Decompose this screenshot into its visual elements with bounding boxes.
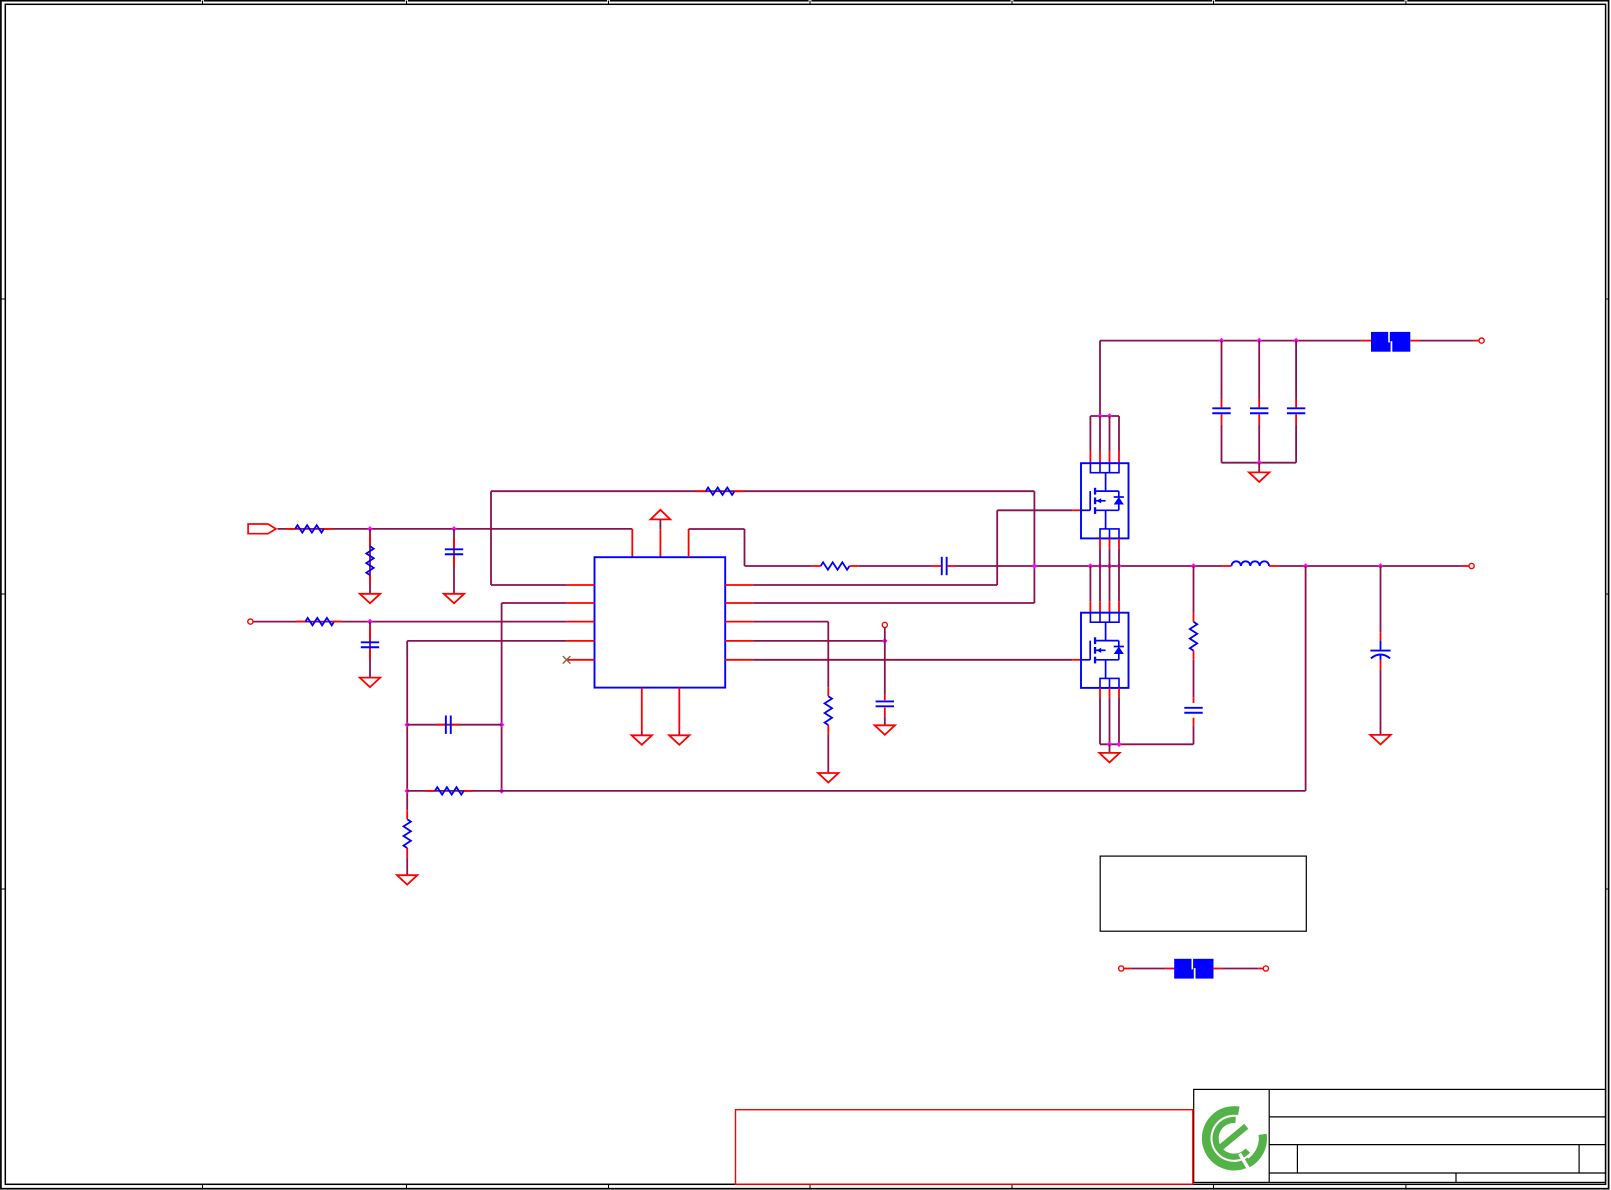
node SW junction 1 — [1032, 563, 1038, 569]
wire Q2 drain — [1099, 566, 1101, 601]
fuse F2 — [1174, 959, 1213, 979]
node A junction — [367, 526, 373, 532]
no-connect X — [563, 656, 571, 664]
wire bottom feedback line — [407, 790, 1305, 792]
ground — [818, 773, 838, 783]
wire U1 right2 to vertical — [753, 602, 1034, 604]
wire snubber branch — [1193, 566, 1195, 613]
pin U1 BST top3 — [688, 529, 690, 557]
node VOUT junction cap — [1378, 563, 1384, 569]
wire VIN to J5 — [1410, 340, 1419, 342]
capacitor C1 — [445, 548, 463, 550]
wire Q1 drain — [1109, 416, 1111, 451]
ground — [397, 875, 417, 885]
capacitor C10 polarized — [1370, 650, 1390, 652]
wire comp cap horizontal — [407, 724, 501, 726]
wire C2 branch — [369, 622, 371, 678]
node drain bus j2 — [1107, 413, 1113, 419]
capacitor C5 snubber — [1184, 707, 1202, 709]
wire Q2 drain — [1118, 566, 1120, 601]
capacitor C3 boot — [941, 557, 943, 575]
wire Q2 drain — [1109, 566, 1111, 601]
wire Q1 drain — [1099, 416, 1101, 451]
wire Q2 drain — [1089, 566, 1091, 601]
pin U1 right5 — [725, 659, 753, 661]
wire EN net — [253, 621, 566, 623]
wire cap bank bus — [1222, 462, 1297, 464]
wire R2 branch — [369, 529, 371, 594]
wire SS pin4 horizontal — [407, 640, 566, 642]
resistor R5 boot — [821, 562, 850, 569]
wire Q1 drain — [1118, 416, 1120, 451]
node G junction — [499, 788, 505, 794]
wire C7 branch — [1221, 341, 1223, 399]
wire FB tap vertical — [1305, 566, 1307, 791]
wire Q1 source — [1118, 538, 1120, 548]
resistor R6 — [825, 696, 832, 725]
node VOUT junction fb — [1303, 563, 1309, 569]
wire SW line left — [745, 565, 812, 567]
node drain bus j1 — [1097, 413, 1103, 419]
wire VOUT line — [1278, 565, 1462, 567]
wire gate1 to Q1 — [997, 509, 1072, 511]
wire drain bus Q1 — [1090, 415, 1119, 417]
node SW junction q2 — [1097, 563, 1103, 569]
node SW junction q4 — [1116, 563, 1122, 569]
resistor R2 — [366, 546, 373, 575]
resistor R3 — [305, 618, 334, 625]
capacitor C2 — [361, 641, 379, 643]
wire C10 branch — [1380, 566, 1382, 632]
wire F2 left — [1131, 968, 1165, 970]
node source bus j2 — [1116, 742, 1122, 748]
pin U1 PGND bottom2 — [678, 688, 680, 731]
ground — [360, 678, 380, 688]
capacitor C8 — [1250, 407, 1268, 409]
wire C9 branch — [1295, 341, 1297, 399]
terminal J7 — [1263, 966, 1268, 971]
wire Q2 source — [1109, 688, 1111, 698]
wire VIN vertical — [1099, 341, 1101, 416]
node VIN j1 — [1219, 338, 1225, 344]
wire SW mid2 — [957, 565, 1223, 567]
capacitor C9 — [1287, 407, 1305, 409]
wire gnd stub q — [1109, 744, 1111, 753]
node SW junction q1 — [1088, 563, 1094, 569]
pin U1 SS left4 — [566, 640, 594, 642]
wire FB top horizontal — [491, 490, 1034, 492]
resistor R9 — [404, 819, 411, 848]
wire Q1 drain — [1089, 416, 1091, 451]
pin U1 IN top — [631, 529, 633, 557]
pin U1 COMP left2 — [566, 602, 594, 604]
inductor L1 — [1232, 561, 1270, 566]
node SW junction snub — [1191, 563, 1197, 569]
node bus junction — [1256, 460, 1262, 466]
capacitor C7 — [1212, 407, 1230, 409]
pin U1 GND bottom1 — [641, 688, 643, 731]
wire gnd stub — [1258, 463, 1260, 473]
wire C1 branch — [453, 529, 455, 594]
resistor R8 comp — [435, 787, 464, 794]
terminal J4 VOUT — [1469, 563, 1474, 568]
wire C8 branch — [1258, 341, 1260, 399]
wire C4 branch — [884, 628, 886, 641]
ground — [360, 594, 380, 604]
wire source bus — [1100, 743, 1194, 745]
transistor Q2 — [1081, 613, 1129, 688]
pin U1 EN left3 — [566, 621, 594, 623]
wire BST vertical — [744, 529, 746, 566]
node source bus j1 — [1107, 742, 1113, 748]
node D junction — [404, 722, 410, 728]
wire VIN rail — [1100, 340, 1362, 342]
ground — [669, 735, 689, 745]
resistor R1 — [295, 525, 324, 532]
ground — [875, 725, 895, 735]
wire pin4 to C4 — [753, 640, 884, 642]
terminal J2 EN — [248, 619, 253, 624]
node SW junction q3 — [1107, 563, 1113, 569]
wire FB right vertical — [1033, 491, 1035, 603]
pin U1 FB left1 — [566, 584, 594, 586]
node E junction — [499, 722, 505, 728]
wire Q1 source — [1109, 538, 1111, 548]
fuse F1 — [1371, 332, 1410, 352]
resistor R4 feedback — [706, 488, 735, 495]
wire F2 right — [1222, 968, 1259, 970]
wire pin3 to R6 — [753, 621, 828, 623]
pin U1 right1 — [725, 584, 753, 586]
terminal J6 — [1119, 966, 1124, 971]
pin U1 right3 — [725, 621, 753, 623]
wire SW mid1 — [859, 565, 932, 567]
wire R6 branch — [827, 622, 829, 688]
pin U1 NC left5 — [566, 659, 594, 661]
wire FB pin1 horizontal — [491, 584, 566, 586]
IC U1 converter — [595, 557, 726, 687]
ground — [632, 735, 652, 745]
wire gate2 net — [753, 659, 1072, 661]
ground — [1370, 735, 1390, 745]
pin U1 right4 — [725, 640, 753, 642]
pin U1 right2 — [725, 602, 753, 604]
ground — [1099, 753, 1119, 763]
node F junction — [404, 788, 410, 794]
port J1 VIN input — [248, 524, 276, 534]
node H junction — [882, 638, 888, 644]
terminal J3 — [882, 622, 887, 627]
capacitor C6 comp — [445, 716, 447, 734]
wire gate1 vertical — [996, 510, 998, 585]
wire Q2 source — [1099, 688, 1101, 698]
wire COMP left vertical — [501, 603, 503, 791]
wire Q1 source — [1099, 538, 1101, 548]
node B junction — [451, 526, 457, 532]
capacitor C4 — [876, 700, 894, 702]
transistor Q1 — [1081, 463, 1129, 538]
resistor R7 snubber — [1190, 622, 1197, 651]
ground — [444, 594, 464, 604]
wire COMP pin2 horizontal — [502, 602, 567, 604]
terminal J5 — [1479, 338, 1484, 343]
node VIN j3 — [1293, 338, 1299, 344]
node C junction — [367, 619, 373, 625]
wire SS vertical — [406, 641, 408, 810]
wire FB left vertical — [490, 491, 492, 585]
wire input net to U1 pin IN — [278, 528, 633, 530]
wire BST horizontal — [689, 528, 745, 530]
wire Q2 source — [1118, 688, 1120, 698]
power VCC symbol — [651, 510, 671, 520]
wire gate1 net horizontal — [753, 584, 997, 586]
node VIN j2 — [1256, 338, 1262, 344]
ground — [1249, 472, 1269, 482]
